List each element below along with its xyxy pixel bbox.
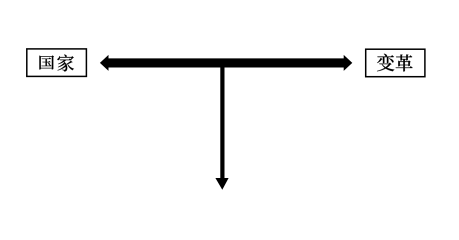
double-headed horizontal block arrow: [100, 55, 352, 71]
vertical arrow shaft: [220, 63, 224, 179]
box: right (变革): [366, 49, 425, 76]
text 革: [396, 55, 413, 72]
vertical arrow head: [215, 178, 228, 190]
box: left (国家): [27, 49, 87, 77]
text 家: [57, 55, 73, 72]
text 国: [39, 55, 54, 69]
text 变: [377, 54, 394, 72]
